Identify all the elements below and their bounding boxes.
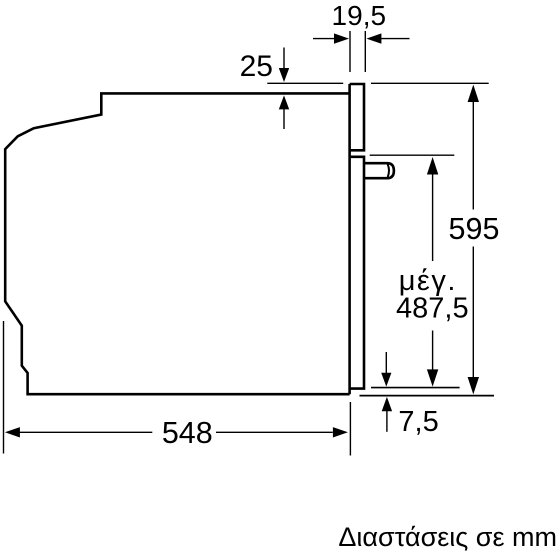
svg-text:25: 25 <box>240 50 273 83</box>
svg-text:Διαστάσεις σε mm: Διαστάσεις σε mm <box>338 522 557 552</box>
svg-text:7,5: 7,5 <box>398 406 438 438</box>
svg-text:548: 548 <box>162 416 213 450</box>
svg-text:595: 595 <box>449 212 500 246</box>
svg-text:487,5: 487,5 <box>396 293 469 325</box>
svg-text:19,5: 19,5 <box>332 0 387 31</box>
